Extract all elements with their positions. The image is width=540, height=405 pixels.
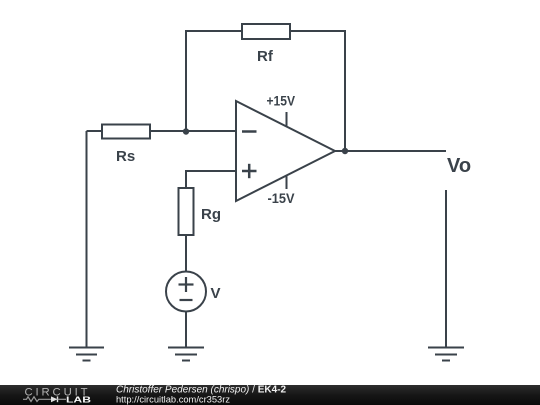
wire left vertical to ground xyxy=(86,131,88,347)
svg-text:-15V: -15V xyxy=(268,190,296,206)
output node junction dot xyxy=(342,148,348,154)
wire op-amp non-inverting input xyxy=(186,171,236,188)
wire Rs right lead to op-amp inverting input xyxy=(150,130,236,132)
ground (center) xyxy=(168,348,204,361)
svg-text:+15V: +15V xyxy=(267,93,296,109)
svg-text:Rs: Rs xyxy=(116,148,135,165)
footer credit text xyxy=(116,385,287,405)
node A junction dot xyxy=(183,128,189,134)
resistor Rf xyxy=(242,24,290,65)
wire Rg bottom to source V top xyxy=(185,235,187,272)
voltage source V xyxy=(166,272,221,312)
wire top-left vertical (node A to Rf left) xyxy=(186,31,242,131)
wire Rf right to output node xyxy=(290,31,345,151)
wire right vertical to ground xyxy=(445,190,447,347)
resistor Rg xyxy=(179,188,222,235)
wire source V bottom to ground xyxy=(185,311,187,347)
svg-text:Rf: Rf xyxy=(257,48,274,65)
ground (left) xyxy=(69,348,104,361)
svg-text:V: V xyxy=(211,285,221,302)
wire Rs left lead xyxy=(87,130,103,132)
resistor Rs xyxy=(102,125,150,166)
ground (right) xyxy=(428,348,464,361)
CircuitLab logo xyxy=(23,387,91,405)
op-amp U1 xyxy=(236,101,335,201)
op-amp negative supply pin -15V xyxy=(268,176,296,207)
svg-text:Rg: Rg xyxy=(201,206,221,223)
svg-text:Vo: Vo xyxy=(447,155,471,177)
wire output xyxy=(335,150,446,152)
svg-text:LAB: LAB xyxy=(66,395,91,405)
svg-text:http://circuitlab.com/cr353rz: http://circuitlab.com/cr353rz xyxy=(116,394,230,404)
op-amp positive supply pin +15V xyxy=(267,93,296,128)
